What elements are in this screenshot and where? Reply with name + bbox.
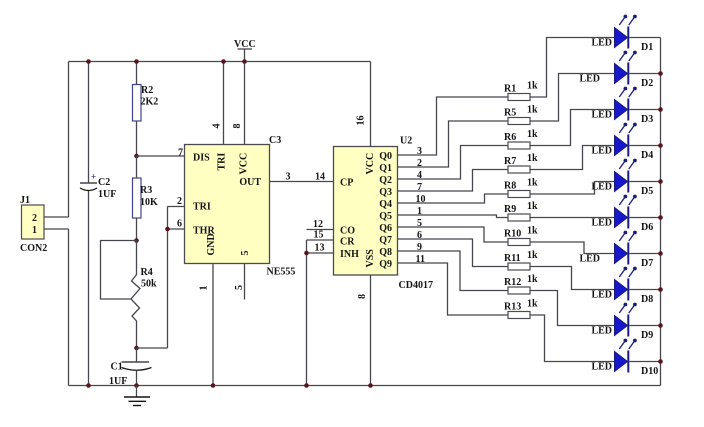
wire R13 to LED D10 [530, 315, 615, 362]
svg-text:Q9: Q9 [379, 259, 392, 270]
svg-text:LED: LED [591, 290, 612, 301]
node C2 bottom rail junction [86, 383, 91, 388]
svg-text:10K: 10K [140, 197, 158, 208]
svg-text:LED: LED [591, 326, 612, 337]
svg-text:D1: D1 [641, 42, 653, 53]
svg-text:1: 1 [199, 286, 210, 291]
wire to C1 top [137, 347, 168, 349]
svg-text:R2: R2 [141, 85, 153, 96]
node bus D9 junction [658, 323, 663, 328]
svg-text:1k: 1k [527, 299, 538, 310]
svg-text:D4: D4 [641, 150, 653, 161]
svg-text:LED: LED [591, 362, 612, 373]
svg-text:D6: D6 [641, 222, 653, 233]
ground symbol [124, 386, 150, 406]
svg-text:U2: U2 [400, 136, 412, 147]
svg-text:LED: LED [591, 146, 612, 157]
LED D9 [615, 303, 661, 337]
svg-text:GND: GND [206, 233, 217, 255]
svg-text:R8: R8 [504, 181, 516, 192]
svg-text:15: 15 [314, 230, 324, 241]
wire R4 wiper loop [101, 241, 137, 300]
svg-text:CR: CR [340, 236, 355, 247]
svg-text:R12: R12 [504, 277, 521, 288]
wire R1 to LED D1 [530, 38, 615, 98]
wire R7 to LED D4 [530, 146, 615, 170]
svg-text:R1: R1 [504, 84, 516, 95]
svg-text:Q0: Q0 [379, 151, 392, 162]
svg-text:CON2: CON2 [20, 243, 47, 254]
pin 16 VDD [370, 62, 372, 147]
counter U2 CD4017 [334, 147, 398, 276]
svg-text:7: 7 [178, 148, 183, 159]
wire left rail upper [68, 62, 70, 218]
node CR rail junction [304, 383, 309, 388]
pin 8 VSS [370, 275, 372, 386]
svg-text:VCC: VCC [365, 153, 376, 175]
node bus D2 junction [658, 71, 663, 76]
svg-text:1k: 1k [527, 105, 538, 116]
svg-text:1k: 1k [527, 129, 538, 140]
LED D5 [615, 159, 661, 193]
wire Q8 to R12 [398, 251, 509, 291]
resistor R10 1k [508, 239, 530, 246]
LED D2 [615, 51, 661, 85]
wire bottom ground rail [69, 385, 661, 387]
node C1 rail junction [134, 383, 139, 388]
svg-text:LED: LED [591, 38, 612, 49]
svg-text:1k: 1k [527, 226, 538, 237]
LED D8 [615, 267, 661, 301]
svg-text:2: 2 [177, 196, 182, 207]
svg-text:D3: D3 [641, 114, 653, 125]
LED D10 [615, 339, 661, 373]
svg-text:D10: D10 [641, 366, 658, 377]
svg-text:VCC: VCC [234, 39, 256, 50]
wire R5 to LED D2 [530, 74, 615, 122]
svg-text:1UF: 1UF [98, 189, 116, 200]
resistor R5 1k [508, 118, 530, 125]
svg-text:12: 12 [313, 219, 323, 230]
resistor R11 1k [508, 263, 530, 270]
capacitor C1 [122, 348, 152, 386]
svg-text:INH: INH [340, 249, 359, 260]
wire TRI-THR tie [167, 207, 169, 349]
pin 13 INH [307, 252, 334, 254]
power symbol VCC [238, 49, 253, 62]
LED D6 [615, 195, 661, 229]
svg-text:R5: R5 [504, 108, 516, 119]
node CD4017 vss rail junction [368, 383, 373, 388]
wire C2 branch lower [88, 191, 90, 386]
svg-text:C3: C3 [269, 135, 281, 146]
wire Q1 to R5 [398, 121, 509, 167]
svg-text:C2: C2 [98, 177, 110, 188]
node R3 bottom junction [134, 238, 139, 243]
resistor R9 1k [508, 214, 530, 221]
svg-text:4: 4 [212, 124, 223, 129]
resistor R2 [133, 85, 142, 122]
svg-text:D2: D2 [641, 78, 653, 89]
resistor R3 [133, 156, 142, 241]
svg-text:TRI: TRI [193, 202, 211, 213]
pin 12 CO [307, 229, 334, 231]
wire R6 to LED D3 [530, 110, 615, 146]
svg-text:LED: LED [579, 254, 600, 265]
svg-text:VSS: VSS [365, 249, 376, 268]
node R2 top rail junction [134, 59, 139, 64]
svg-text:CD4017: CD4017 [399, 280, 433, 291]
svg-text:1k: 1k [527, 153, 538, 164]
wire R10 to LED D7 [530, 242, 615, 254]
wire Q0 to R1 [398, 97, 509, 155]
svg-text:1UF: 1UF [109, 376, 127, 387]
svg-text:2K2: 2K2 [141, 97, 159, 108]
pin 2 TRI [168, 206, 185, 208]
resistor R4 50k [131, 241, 140, 349]
wire Q4 to R8 [398, 194, 509, 203]
wire Q3 to R7 [398, 170, 509, 192]
wire Q9 to R13 [398, 263, 509, 315]
svg-text:VCC: VCC [239, 153, 250, 175]
svg-text:Q7: Q7 [379, 235, 392, 246]
node C2 top rail junction [86, 59, 91, 64]
wire Q5 to R9 [398, 215, 509, 218]
svg-text:Q1: Q1 [379, 163, 392, 174]
svg-text:D7: D7 [641, 258, 653, 269]
LED D4 [615, 123, 661, 157]
wire J1 pin1 to ground rail [44, 228, 69, 230]
node R4 bottom junction [134, 346, 139, 351]
node bus D6 junction [658, 215, 663, 220]
resistor R6 1k [508, 142, 530, 149]
svg-text:1k: 1k [527, 201, 538, 212]
svg-text:Q6: Q6 [379, 223, 392, 234]
wire DIS to NE555 pin7 [137, 155, 185, 157]
wire R2 bottom to DIS [136, 121, 138, 156]
svg-text:Q8: Q8 [379, 247, 392, 258]
svg-text:R7: R7 [504, 156, 516, 167]
node bus D3 junction [658, 107, 663, 112]
svg-text:1k: 1k [527, 81, 538, 92]
wire Q2 to R6 [398, 146, 509, 180]
svg-text:CP: CP [340, 178, 353, 189]
svg-text:1k: 1k [527, 274, 538, 285]
node NE555 gnd junction [211, 383, 216, 388]
node INH junction [304, 251, 309, 256]
pin 5 CV [244, 264, 246, 300]
wire Q7 to R11 [398, 239, 509, 267]
svg-text:NE555: NE555 [267, 267, 296, 278]
LED D3 [615, 87, 661, 121]
svg-text:1: 1 [32, 225, 37, 236]
LED D7 [615, 231, 661, 265]
svg-text:J1: J1 [20, 195, 30, 206]
svg-text:TRI: TRI [217, 153, 228, 171]
svg-text:5: 5 [240, 251, 251, 256]
wire OUT to CP [270, 181, 334, 183]
node DIS junction [134, 154, 139, 159]
pin 1 GND [212, 264, 214, 386]
wire LED cathode bus [660, 38, 662, 386]
svg-text:Q3: Q3 [379, 187, 392, 198]
svg-text:6: 6 [177, 219, 182, 230]
svg-text:50k: 50k [141, 279, 157, 290]
wire R8 to LED D5 [530, 182, 615, 195]
wire J1 pin2 to VCC rail [44, 216, 69, 218]
svg-text:1k: 1k [527, 250, 538, 261]
svg-text:14: 14 [315, 172, 325, 183]
pin 8 VCC [244, 62, 246, 145]
wire CR-INH to ground [306, 240, 308, 386]
svg-text:R13: R13 [504, 302, 521, 313]
node bus D4 junction [658, 143, 663, 148]
svg-text:R4: R4 [141, 267, 153, 278]
svg-text:1k: 1k [527, 178, 538, 189]
resistor R1 1k [508, 94, 530, 101]
svg-text:R11: R11 [504, 253, 521, 264]
wire left rail lower [68, 229, 70, 386]
node bus D5 junction [658, 179, 663, 184]
pin 4 RESET [223, 62, 225, 145]
resistor R12 1k [508, 287, 530, 294]
wire R12 to LED D9 [530, 291, 615, 326]
wire top VCC rail [69, 61, 371, 63]
LED D1 [615, 15, 661, 49]
svg-text:R6: R6 [504, 132, 516, 143]
node bus D10 junction [658, 359, 663, 364]
node THR junction [165, 227, 170, 232]
resistor R13 1k [508, 312, 530, 319]
connector J1 [22, 205, 45, 239]
node bus D7 junction [658, 251, 663, 256]
svg-text:D8: D8 [641, 294, 653, 305]
svg-text:Q4: Q4 [379, 199, 392, 210]
svg-text:LED: LED [591, 218, 612, 229]
svg-text:D9: D9 [641, 330, 653, 341]
svg-text:R9: R9 [504, 204, 516, 215]
svg-text:LED: LED [591, 110, 612, 121]
svg-text:LED: LED [591, 182, 612, 193]
svg-text:R3: R3 [140, 185, 152, 196]
wire R9 to LED D6 [530, 217, 615, 219]
pin 6 THR [168, 228, 185, 230]
svg-text:8: 8 [232, 124, 243, 129]
svg-text:OUT: OUT [239, 177, 261, 188]
wire R2 top [136, 62, 138, 85]
svg-text:16: 16 [356, 116, 367, 126]
wire C2 branch upper [88, 62, 90, 184]
svg-text:+: + [91, 172, 96, 182]
svg-text:LED: LED [579, 74, 600, 85]
resistor R8 1k [508, 191, 530, 198]
svg-text:Q5: Q5 [379, 211, 392, 222]
svg-text:5: 5 [234, 285, 245, 290]
wire R11 to LED D8 [530, 267, 615, 290]
wire Q6 to R10 [398, 227, 509, 242]
svg-text:DIS: DIS [193, 153, 210, 164]
pin 15 CR [307, 239, 334, 241]
resistor R7 1k [508, 166, 530, 173]
svg-text:13: 13 [315, 243, 325, 254]
capacitor C2 [80, 183, 97, 191]
svg-text:2: 2 [32, 213, 37, 224]
op-amp U1 NE555 [185, 145, 270, 264]
svg-text:C1: C1 [111, 362, 123, 373]
svg-text:CO: CO [340, 226, 355, 237]
svg-text:R10: R10 [504, 229, 521, 240]
svg-text:Q2: Q2 [379, 175, 392, 186]
svg-text:D5: D5 [641, 186, 653, 197]
svg-text:8: 8 [357, 294, 368, 299]
node bus D8 junction [658, 287, 663, 292]
